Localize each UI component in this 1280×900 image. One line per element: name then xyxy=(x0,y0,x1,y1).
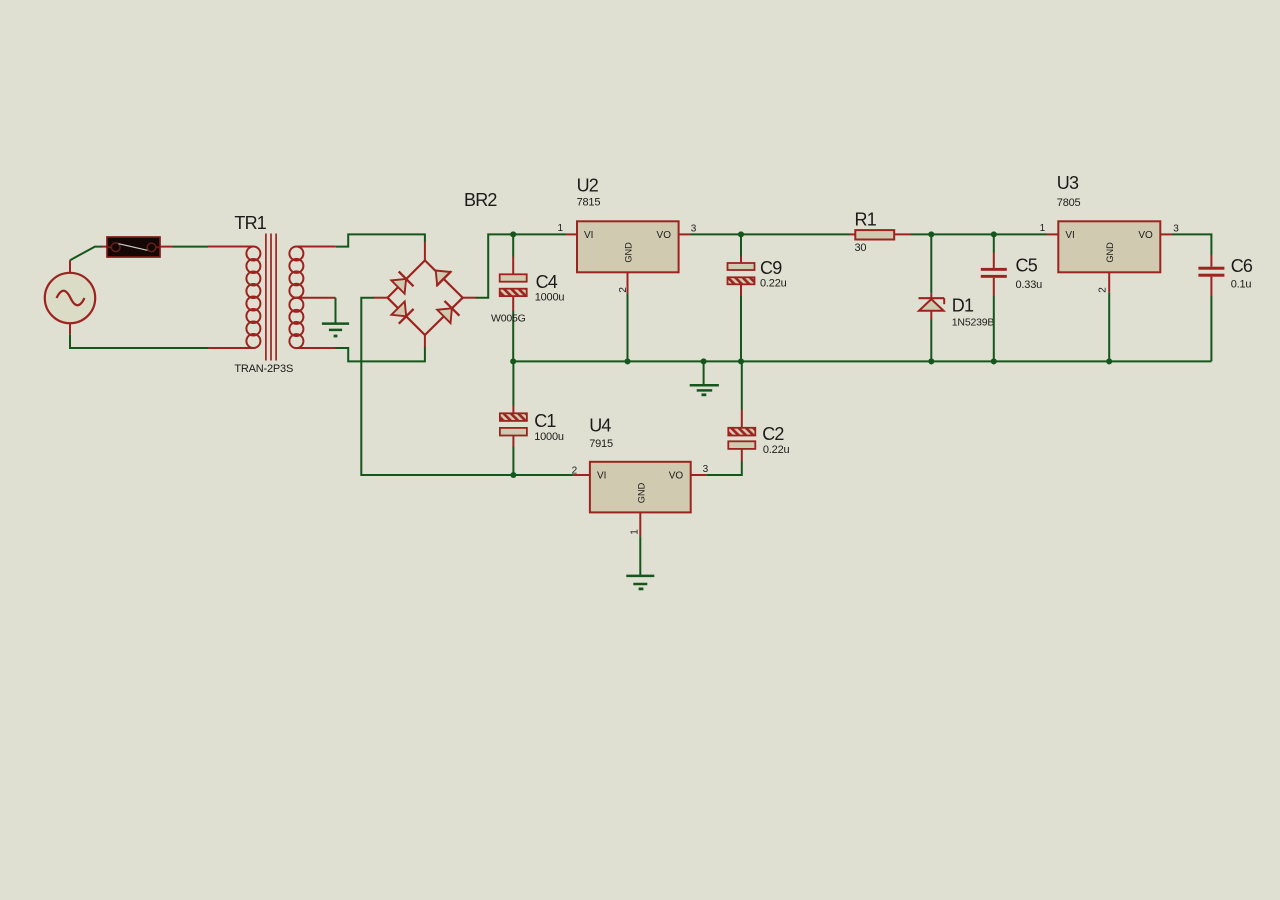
voltage regulator U4 (7915) xyxy=(574,462,706,537)
svg-text:2: 2 xyxy=(618,287,629,293)
resistor R1 (30) xyxy=(855,230,894,239)
svg-text:VI: VI xyxy=(584,230,593,241)
svg-text:1N5239B: 1N5239B xyxy=(952,316,995,328)
svg-text:C5: C5 xyxy=(1016,256,1038,276)
wire: center tap to ground xyxy=(335,298,337,323)
svg-text:1000u: 1000u xyxy=(534,431,564,443)
svg-text:2: 2 xyxy=(1097,287,1108,293)
wire: U3 VO to C6 xyxy=(1160,233,1172,235)
junction xyxy=(701,358,707,364)
junction xyxy=(991,231,997,237)
svg-text:GND: GND xyxy=(637,482,647,503)
svg-text:1000u: 1000u xyxy=(535,292,565,304)
svg-text:GND: GND xyxy=(1105,242,1115,263)
wire: bridge left corner down to negative rail xyxy=(361,298,574,475)
svg-text:VO: VO xyxy=(657,230,672,241)
svg-text:GND: GND xyxy=(623,242,633,263)
svg-text:TRAN-2P3S: TRAN-2P3S xyxy=(234,363,293,375)
svg-text:0.22u: 0.22u xyxy=(760,278,787,290)
junction xyxy=(991,358,997,364)
svg-text:U3: U3 xyxy=(1057,173,1079,193)
ground (center tap) xyxy=(322,324,349,336)
svg-text:2: 2 xyxy=(572,466,578,477)
junction xyxy=(738,231,744,237)
bridge rectifier BR2 xyxy=(374,242,477,348)
svg-text:D1: D1 xyxy=(952,296,974,316)
capacitor C6 (0.1u) xyxy=(1198,255,1224,296)
svg-text:VO: VO xyxy=(1138,230,1153,241)
junction xyxy=(510,472,516,478)
svg-text:C4: C4 xyxy=(536,272,558,292)
svg-text:1: 1 xyxy=(1040,223,1046,234)
wire: C6 to ground rail xyxy=(1210,296,1212,361)
svg-text:3: 3 xyxy=(691,223,697,234)
svg-text:3: 3 xyxy=(703,464,709,475)
wire: ground stub xyxy=(703,361,705,384)
svg-text:BR2: BR2 xyxy=(464,190,497,210)
svg-text:VI: VI xyxy=(597,471,606,482)
svg-text:0.33u: 0.33u xyxy=(1016,279,1043,291)
capacitor C5 (0.33u) xyxy=(981,234,1007,361)
svg-text:C1: C1 xyxy=(534,411,556,431)
junction xyxy=(1106,358,1112,364)
capacitor C4 (1000u) xyxy=(500,234,527,361)
zener diode D1 (1N5239B) xyxy=(919,234,945,361)
junction xyxy=(624,358,630,364)
ground (main rail) xyxy=(690,385,719,395)
junction xyxy=(738,358,744,364)
voltage regulator U2 (7815) xyxy=(577,221,679,293)
svg-text:U4: U4 xyxy=(589,416,611,436)
svg-text:0.1u: 0.1u xyxy=(1231,279,1252,291)
wire: U4 GND to ground xyxy=(639,536,641,575)
svg-text:7915: 7915 xyxy=(589,438,613,450)
junction xyxy=(510,358,516,364)
wire: bridge right corner to +V node xyxy=(476,234,566,297)
junction xyxy=(928,358,934,364)
wire: source top to fuse xyxy=(70,247,103,261)
wire: fuse to transformer primary xyxy=(173,246,209,248)
svg-text:VO: VO xyxy=(669,471,684,482)
svg-text:30: 30 xyxy=(855,242,867,254)
junction xyxy=(510,231,516,237)
transformer TR1 xyxy=(208,234,336,361)
wire: source bottom to transformer primary xyxy=(70,334,208,348)
wire: U2 GND to ground rail xyxy=(627,294,629,362)
wire: secondary bottom to bridge bottom xyxy=(336,347,425,361)
svg-text:7805: 7805 xyxy=(1057,197,1081,209)
capacitor C1 (1000u) xyxy=(500,361,527,475)
voltage regulator U3 (7805) xyxy=(1058,221,1160,292)
wire: node to U2 VI xyxy=(566,233,577,235)
svg-text:1: 1 xyxy=(557,223,563,234)
capacitor C9 (0.22u) xyxy=(728,234,755,361)
ground (U4) xyxy=(626,576,654,589)
svg-text:1: 1 xyxy=(629,529,640,535)
svg-text:TR1: TR1 xyxy=(234,213,266,233)
wire: R1 to U3 VI xyxy=(894,233,911,235)
svg-text:C6: C6 xyxy=(1231,256,1253,276)
svg-text:U2: U2 xyxy=(577,176,599,196)
svg-text:7815: 7815 xyxy=(577,197,601,209)
svg-text:3: 3 xyxy=(1173,223,1179,234)
svg-text:R1: R1 xyxy=(855,210,877,230)
wire: secondary top to bridge top xyxy=(336,234,425,246)
svg-text:0.22u: 0.22u xyxy=(763,444,790,456)
svg-text:VI: VI xyxy=(1065,230,1074,241)
fuse FU1 xyxy=(102,237,173,257)
wire: U3 GND to ground rail xyxy=(1108,293,1110,362)
capacitor C2 (0.22u) xyxy=(706,361,755,475)
wire: U2 VO to R1 xyxy=(679,233,691,235)
AC voltage source V1 xyxy=(45,260,95,334)
svg-text:C9: C9 xyxy=(760,258,782,278)
svg-text:C2: C2 xyxy=(762,424,784,444)
wire: main ground rail xyxy=(513,360,1211,362)
junction xyxy=(928,231,934,237)
svg-text:W005G: W005G xyxy=(491,313,526,325)
